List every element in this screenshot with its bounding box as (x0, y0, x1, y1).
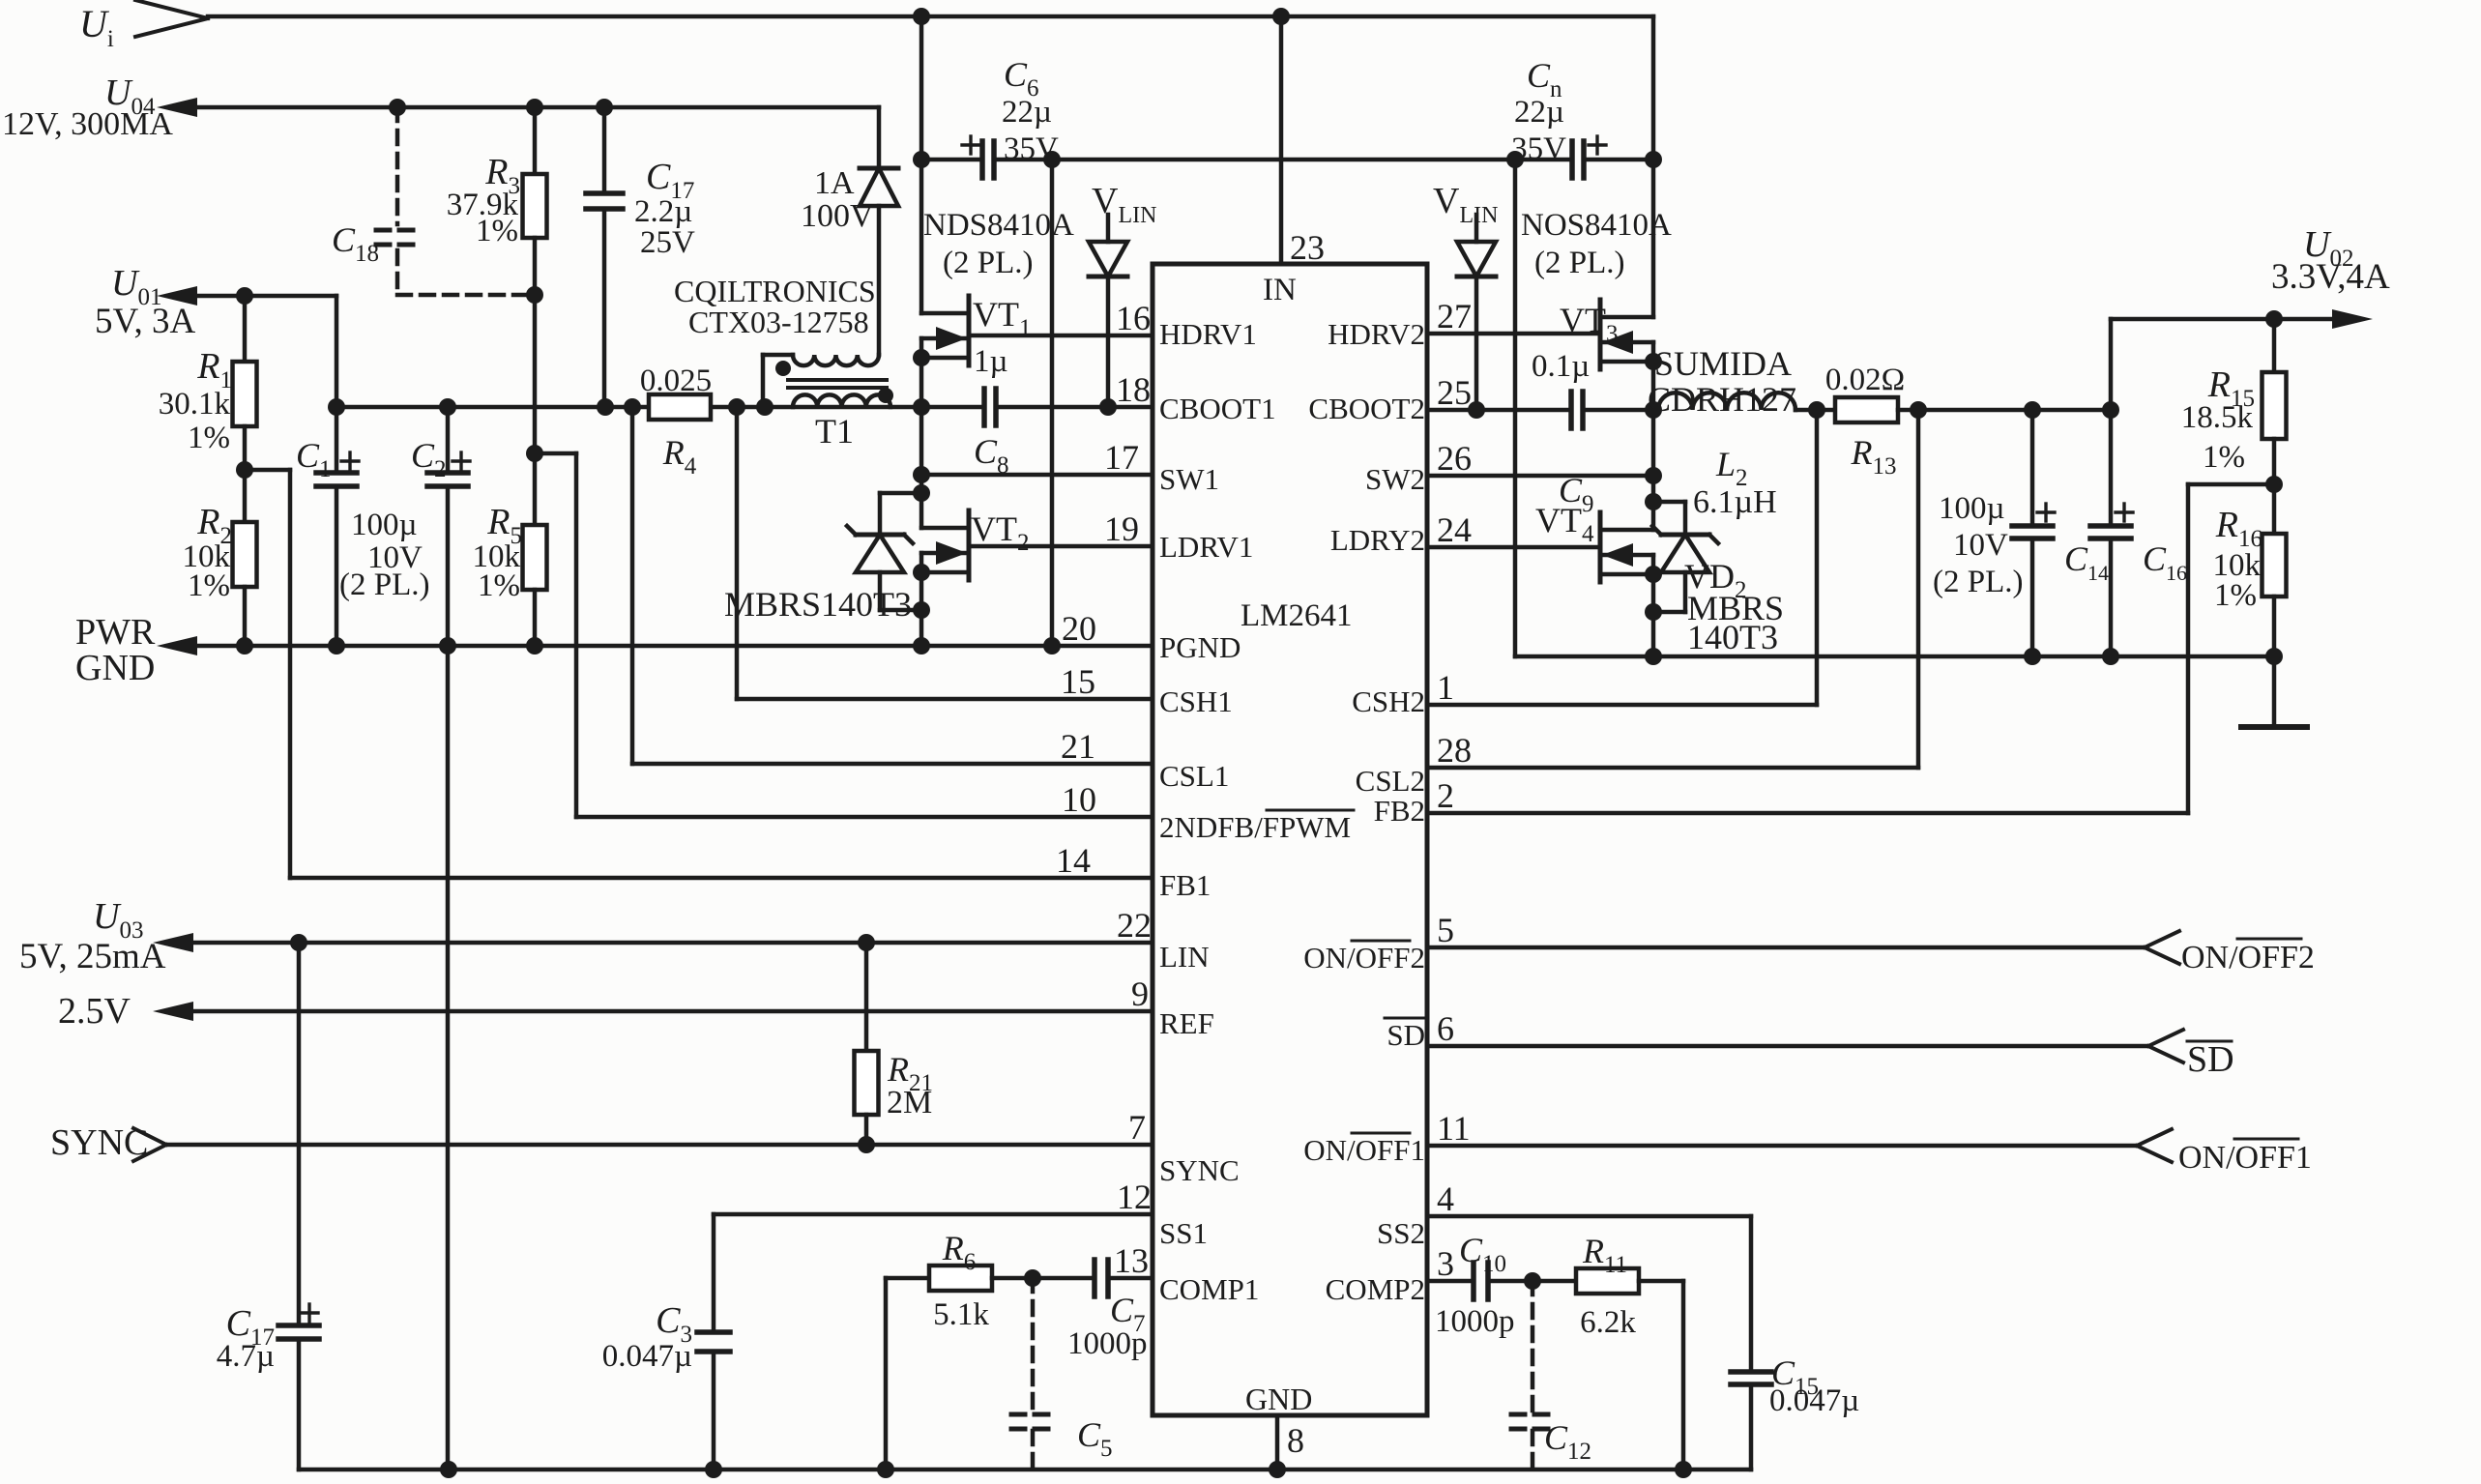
svg-text:100V: 100V (801, 198, 874, 234)
svg-text:PGND: PGND (1159, 630, 1240, 664)
svg-text:1%: 1% (2203, 440, 2245, 475)
svg-text:LDRY2: LDRY2 (1330, 523, 1425, 557)
svg-text:18: 18 (1116, 370, 1151, 409)
svg-text:5: 5 (1437, 911, 1454, 949)
svg-text:24: 24 (1437, 510, 1472, 549)
svg-text:11: 11 (1437, 1109, 1471, 1148)
svg-text:20: 20 (1062, 609, 1096, 648)
svg-text:5V, 25mA: 5V, 25mA (19, 937, 166, 976)
svg-text:CSH1: CSH1 (1159, 684, 1233, 718)
svg-text:3.3V,4A: 3.3V,4A (2271, 257, 2390, 297)
svg-text:HDRV2: HDRV2 (1328, 317, 1425, 351)
svg-text:ON/OFF2: ON/OFF2 (2181, 940, 2315, 975)
svg-text:SW1: SW1 (1159, 462, 1219, 496)
svg-text:CTX03-12758: CTX03-12758 (688, 305, 869, 339)
svg-text:3: 3 (1437, 1244, 1454, 1283)
svg-text:19: 19 (1104, 509, 1139, 548)
svg-text:1µ: 1µ (974, 344, 1008, 379)
svg-text:LIN: LIN (1159, 940, 1210, 974)
svg-text:28: 28 (1437, 731, 1472, 770)
svg-text:21: 21 (1061, 727, 1095, 766)
svg-text:1%: 1% (478, 568, 520, 603)
svg-text:SUMIDA: SUMIDA (1654, 344, 1792, 383)
svg-text:10: 10 (1062, 780, 1096, 819)
svg-text:1%: 1% (2214, 578, 2257, 613)
svg-text:18.5k: 18.5k (2181, 400, 2254, 435)
svg-text:12: 12 (1117, 1178, 1152, 1216)
svg-text:SS1: SS1 (1159, 1216, 1208, 1250)
svg-text:35V: 35V (1004, 131, 1059, 166)
svg-text:FB1: FB1 (1159, 868, 1211, 902)
svg-text:10V: 10V (1953, 528, 2008, 563)
svg-text:(2 PL.): (2 PL.) (1534, 246, 1625, 280)
svg-text:22µ: 22µ (1514, 95, 1564, 130)
svg-text:0.047µ: 0.047µ (602, 1339, 692, 1374)
svg-text:SD: SD (1386, 1018, 1425, 1052)
svg-text:COMP2: COMP2 (1326, 1272, 1425, 1306)
svg-text:17: 17 (1104, 438, 1139, 477)
svg-text:16: 16 (1116, 299, 1151, 337)
svg-text:5.1k: 5.1k (933, 1297, 989, 1332)
svg-text:5V, 3A: 5V, 3A (95, 302, 195, 341)
svg-text:1000p: 1000p (1067, 1326, 1148, 1361)
svg-text:0.1µ: 0.1µ (1532, 349, 1590, 384)
svg-text:CSL2: CSL2 (1356, 764, 1425, 798)
svg-text:23: 23 (1290, 228, 1325, 267)
svg-text:2: 2 (1437, 776, 1454, 815)
svg-text:LDRV1: LDRV1 (1159, 530, 1253, 564)
svg-text:100µ: 100µ (1939, 491, 2005, 526)
svg-text:COMP1: COMP1 (1159, 1272, 1259, 1306)
svg-text:SD: SD (2187, 1039, 2234, 1080)
svg-text:(2 PL.): (2 PL.) (1933, 565, 2024, 599)
svg-text:NDS8410A: NDS8410A (923, 208, 1074, 243)
svg-text:SS2: SS2 (1377, 1216, 1425, 1250)
svg-text:1%: 1% (476, 214, 518, 248)
svg-text:100µ: 100µ (351, 508, 418, 542)
svg-text:1%: 1% (188, 568, 230, 603)
svg-text:9: 9 (1131, 975, 1149, 1013)
svg-text:CBOOT1: CBOOT1 (1159, 392, 1276, 425)
svg-text:13: 13 (1114, 1241, 1149, 1280)
svg-text:(2 PL.): (2 PL.) (339, 567, 430, 602)
svg-text:35V: 35V (1511, 131, 1566, 166)
svg-text:25V: 25V (640, 225, 695, 260)
svg-text:8: 8 (1287, 1421, 1304, 1460)
svg-text:6.2k: 6.2k (1580, 1305, 1636, 1340)
svg-text:6: 6 (1437, 1009, 1454, 1048)
svg-text:SYNC: SYNC (50, 1122, 148, 1163)
svg-text:SYNC: SYNC (1159, 1153, 1240, 1187)
svg-text:ON/OFF1: ON/OFF1 (2178, 1140, 2312, 1176)
svg-text:1%: 1% (188, 421, 230, 455)
svg-text:0.025: 0.025 (640, 364, 712, 398)
svg-text:PWR: PWR (75, 612, 156, 653)
svg-text:CBOOT2: CBOOT2 (1308, 392, 1425, 425)
svg-text:22: 22 (1117, 906, 1152, 945)
svg-text:T1: T1 (815, 412, 854, 451)
svg-text:30.1k: 30.1k (159, 387, 231, 422)
svg-text:27: 27 (1437, 297, 1472, 335)
svg-text:ON/OFF2: ON/OFF2 (1303, 941, 1425, 975)
svg-text:REF: REF (1159, 1006, 1214, 1040)
svg-text:CQILTRONICS: CQILTRONICS (674, 274, 876, 308)
svg-text:2.5V: 2.5V (58, 991, 131, 1032)
svg-text:4.7µ: 4.7µ (217, 1339, 275, 1374)
svg-text:2.2µ: 2.2µ (634, 194, 692, 229)
svg-text:14: 14 (1056, 841, 1091, 880)
svg-text:0.047µ: 0.047µ (1769, 1383, 1859, 1418)
svg-text:IN: IN (1263, 273, 1297, 307)
svg-text:MBRS140T3: MBRS140T3 (724, 585, 912, 624)
svg-text:CSH2: CSH2 (1352, 684, 1425, 718)
svg-text:CSL1: CSL1 (1159, 759, 1229, 793)
svg-text:1A: 1A (814, 165, 855, 201)
svg-text:FB2: FB2 (1374, 794, 1425, 828)
svg-text:LM2641: LM2641 (1240, 598, 1353, 633)
svg-text:6.1µH: 6.1µH (1693, 484, 1777, 520)
svg-text:HDRV1: HDRV1 (1159, 317, 1257, 351)
svg-text:15: 15 (1061, 662, 1095, 701)
svg-text:25: 25 (1437, 373, 1472, 412)
svg-text:7: 7 (1128, 1108, 1146, 1147)
svg-text:NOS8410A: NOS8410A (1521, 208, 1672, 243)
svg-text:SW2: SW2 (1365, 462, 1425, 496)
svg-text:4: 4 (1437, 1179, 1454, 1218)
svg-text:0.02Ω: 0.02Ω (1825, 363, 1905, 397)
svg-text:1: 1 (1437, 668, 1454, 707)
svg-text:GND: GND (75, 648, 155, 688)
svg-text:2M: 2M (887, 1085, 932, 1120)
svg-text:22µ: 22µ (1002, 95, 1052, 130)
svg-text:26: 26 (1437, 439, 1472, 478)
svg-text:GND: GND (1245, 1382, 1312, 1416)
svg-text:1000p: 1000p (1435, 1304, 1515, 1339)
svg-text:CDRH127: CDRH127 (1648, 380, 1796, 419)
svg-text:12V, 300MA: 12V, 300MA (2, 106, 173, 142)
svg-text:(2 PL.): (2 PL.) (943, 246, 1034, 280)
svg-text:2NDFB/FPWM: 2NDFB/FPWM (1159, 810, 1351, 844)
svg-text:ON/OFF1: ON/OFF1 (1303, 1133, 1425, 1167)
svg-text:140T3: 140T3 (1687, 618, 1778, 656)
